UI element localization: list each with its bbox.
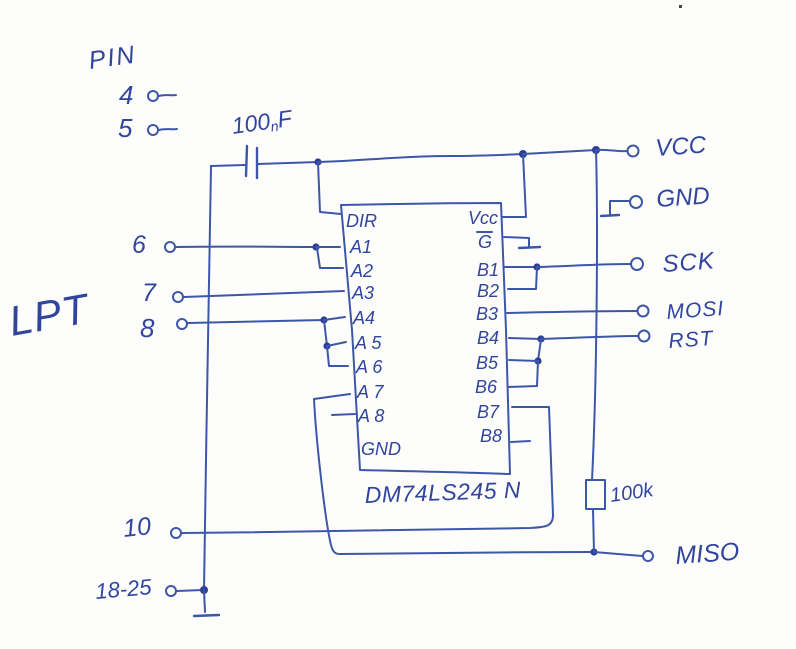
SCK terminal <box>631 258 643 270</box>
svg-text:SCK: SCK <box>662 247 716 278</box>
IC U1 pin label GND <box>361 439 401 459</box>
label PIN <box>87 41 138 75</box>
IC U1 pin label A7 <box>356 382 384 402</box>
wire pin6 to node D <box>176 246 316 248</box>
svg-text:5: 5 <box>118 113 133 143</box>
svg-text:A 7: A 7 <box>356 382 384 402</box>
svg-text:MOSI: MOSI <box>666 297 725 324</box>
node J junction (resistor/MISO) <box>590 548 597 555</box>
wire pin B3 to MOSI terminal <box>507 311 637 313</box>
wire pin18-25 to node K <box>177 590 203 591</box>
node E junction (A4 tap) <box>320 316 327 323</box>
svg-text:VCC: VCC <box>655 131 708 162</box>
svg-text:18-25: 18-25 <box>94 574 153 604</box>
IC U1 pin label B2 <box>477 281 499 301</box>
pin 10 terminal <box>171 528 181 538</box>
pin 18-25 number <box>94 574 153 604</box>
node G junction (B1/B2/SCK) <box>533 263 540 270</box>
label DM74LS245N part number <box>364 477 521 508</box>
label 100k resistor value <box>609 479 656 507</box>
IC U1 pin label A8 <box>357 406 384 426</box>
pin 5 number <box>118 113 133 143</box>
wire Vcc pin to node B <box>502 154 526 217</box>
wire node B to node C <box>523 150 596 154</box>
svg-text:A4: A4 <box>352 308 375 328</box>
MISO terminal <box>643 551 653 561</box>
label LPT <box>5 284 94 345</box>
wire node D to pin A2 <box>317 248 343 268</box>
svg-text:DM74LS245 N: DM74LS245 N <box>364 477 521 508</box>
svg-text:B6: B6 <box>475 377 498 397</box>
svg-text:4: 4 <box>119 80 133 110</box>
IC U1 pin label B3 <box>476 304 498 324</box>
label MISO <box>674 538 740 570</box>
wire pin B1 to node G <box>505 266 537 268</box>
node D junction (A1/A2 tap) <box>312 243 319 250</box>
svg-text:A 8: A 8 <box>357 406 384 426</box>
VCC terminal <box>628 146 639 157</box>
pin 7 terminal <box>173 292 183 302</box>
IC U1 pin label B7 <box>477 402 500 422</box>
wire node H down to node I <box>538 339 541 361</box>
pin 8 number <box>140 313 155 343</box>
label GND <box>656 182 711 213</box>
wire node E down to node F <box>324 320 327 346</box>
IC U1 pin label A5 <box>354 333 382 353</box>
svg-text:B7: B7 <box>477 402 500 422</box>
pin 7 number <box>142 279 157 307</box>
node B junction (Vcc pin tap) <box>519 150 527 158</box>
svg-text:RST: RST <box>668 327 716 353</box>
wire pin8 to node E <box>188 320 324 323</box>
speck top right <box>679 5 682 8</box>
svg-text:A1: A1 <box>349 237 372 257</box>
wire node H to RST terminal <box>541 336 638 339</box>
wire node K to ground <box>204 590 205 612</box>
svg-text:B1: B1 <box>477 260 499 280</box>
node F junction (A5 tap) <box>323 342 330 349</box>
IC U1 pin label B5 <box>476 353 499 373</box>
wire top rail left of capacitor <box>211 165 245 166</box>
wire pin B8 stub <box>511 441 530 442</box>
svg-text:B2: B2 <box>477 281 499 301</box>
IC U1 pin label A6 <box>355 357 383 377</box>
wire node E to pin A4 <box>324 317 345 320</box>
MOSI terminal <box>638 306 649 317</box>
capacitor C1 <box>246 146 257 178</box>
wire left vertical bus (LPT side) <box>204 166 211 590</box>
label RST <box>668 327 716 353</box>
IC U1 pin label G with overline <box>477 232 492 252</box>
node I junction (B5 tap) <box>534 357 541 364</box>
wire pin7 to pin A3 <box>184 291 344 297</box>
svg-text:6: 6 <box>132 231 146 259</box>
ground symbol bottom <box>194 615 219 616</box>
wire pin A8 stub <box>332 414 355 415</box>
pin 4 terminal <box>148 91 176 101</box>
ground symbol at GND terminal <box>601 201 629 216</box>
pin 4 number <box>119 80 133 110</box>
IC U1 pin label A2 <box>350 261 373 281</box>
svg-text:8: 8 <box>140 313 155 343</box>
wire DIR pin from node A <box>318 162 341 214</box>
RST terminal <box>639 331 650 342</box>
svg-text:A 6: A 6 <box>355 357 383 377</box>
svg-text:10: 10 <box>122 512 153 543</box>
node C junction (resistor branch) <box>592 146 600 154</box>
svg-text:GND: GND <box>656 182 711 213</box>
IC U1 pin label Vcc <box>468 208 498 228</box>
wire pin A7 to MISO line <box>314 394 350 554</box>
node A junction <box>314 158 321 165</box>
IC U1 pin label B1 <box>477 260 499 280</box>
wire pin B4 to node H <box>509 338 541 339</box>
svg-text:A 5: A 5 <box>354 333 382 353</box>
wire node I to pin B6 <box>509 361 538 387</box>
wire resistor R1 to node J <box>593 509 594 552</box>
wire top rail node A to VCC node <box>318 154 523 162</box>
svg-text:MISO: MISO <box>674 538 740 570</box>
pin 6 terminal <box>165 242 175 252</box>
wire node C down to resistor R1 <box>592 150 597 480</box>
node K junction (ground tap) <box>200 586 208 594</box>
IC U1 pin label B6 <box>475 377 498 397</box>
node H junction (B4/RST) <box>537 335 544 342</box>
wire node J to MISO terminal <box>594 552 642 556</box>
label MOSI <box>666 297 725 324</box>
IC U1 pin label A1 <box>349 237 372 257</box>
resistor R1 <box>586 480 605 509</box>
label VCC <box>655 131 708 162</box>
svg-text:Vcc: Vcc <box>468 208 498 228</box>
IC U1 body DM74LS245N <box>341 203 510 474</box>
wire G pin with logic-low bar <box>504 237 540 248</box>
label SCK <box>662 247 716 278</box>
wire node F to pin A6 <box>327 346 348 366</box>
wire node F to pin A5 <box>327 342 346 346</box>
pin 8 terminal <box>177 319 187 329</box>
svg-text:B5: B5 <box>476 353 499 373</box>
svg-text:DIR: DIR <box>346 211 377 231</box>
IC U1 pin label A3 <box>351 283 374 303</box>
IC U1 pin label DIR <box>346 211 377 231</box>
svg-text:B3: B3 <box>476 304 498 324</box>
wire pin10 to pin B7 (loop) <box>182 407 553 533</box>
IC U1 pin label B4 <box>477 328 499 348</box>
wire node I to pin B5 <box>509 360 538 361</box>
svg-text:7: 7 <box>142 279 157 307</box>
svg-text:A2: A2 <box>350 261 373 281</box>
svg-text:G: G <box>478 232 492 252</box>
capacitor C1 value 100nF <box>230 105 295 140</box>
IC U1 pin label A4 <box>352 308 375 328</box>
wire node D to pin A1 <box>316 246 340 248</box>
svg-text:A3: A3 <box>351 283 374 303</box>
pin 18-25 terminal <box>166 586 176 596</box>
svg-text:B8: B8 <box>480 426 502 446</box>
wire node G to SCK terminal <box>537 264 631 267</box>
wire node C to VCC terminal <box>596 150 627 151</box>
pin 5 terminal <box>148 125 177 135</box>
wire MISO line to node J <box>340 552 594 554</box>
wire top rail capacitor to node A <box>258 162 318 164</box>
GND terminal <box>630 196 642 208</box>
IC U1 pin label B8 <box>480 426 502 446</box>
svg-text:B4: B4 <box>477 328 499 348</box>
wire node G to pin B2 <box>508 267 537 289</box>
pin 10 number <box>122 512 153 543</box>
pin 6 number <box>132 231 146 259</box>
svg-text:GND: GND <box>361 439 401 459</box>
